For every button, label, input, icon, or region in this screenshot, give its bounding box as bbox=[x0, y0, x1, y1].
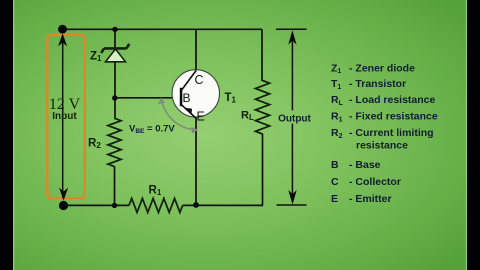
svg-text:- Collector: - Collector bbox=[349, 176, 401, 188]
wire R2 to bottom rail bbox=[114, 166, 116, 205]
node base tap junction bbox=[112, 95, 117, 100]
wire zener to R2 bbox=[114, 62, 116, 119]
svg-text:E: E bbox=[197, 110, 205, 124]
node junction bottom rail / emitter bbox=[193, 202, 199, 208]
svg-text:- Load resistance: - Load resistance bbox=[349, 94, 436, 106]
node input negative terminal bbox=[59, 201, 68, 210]
wire bottom rail right segment bbox=[183, 204, 263, 206]
input dimension arrow bbox=[58, 33, 68, 200]
svg-text:Output: Output bbox=[278, 114, 311, 125]
svg-text:resistance: resistance bbox=[356, 139, 408, 151]
svg-text:- Current limiting: - Current limiting bbox=[349, 127, 434, 139]
zener diode Z1 bbox=[101, 44, 129, 62]
svg-text:C: C bbox=[331, 176, 339, 188]
wire load branch upper bbox=[261, 29, 263, 81]
wire emitter lead bbox=[195, 117, 197, 205]
orange highlight box around input bbox=[47, 35, 85, 199]
output dimension ticks bbox=[276, 29, 307, 205]
VBE measurement arc bbox=[158, 97, 198, 133]
wire load branch lower bbox=[262, 134, 265, 206]
resistor R1 bbox=[129, 198, 183, 212]
wire top rail bbox=[61, 28, 263, 30]
wire zener branch upper bbox=[114, 29, 116, 48]
svg-text:B: B bbox=[331, 159, 339, 171]
svg-text:- Fixed resistance: - Fixed resistance bbox=[349, 111, 438, 123]
svg-text:Input: Input bbox=[52, 111, 77, 122]
node junction bottom rail / R2 branch bbox=[112, 203, 117, 208]
node junction top rail / zener branch bbox=[112, 27, 117, 32]
svg-text:- Base: - Base bbox=[349, 159, 381, 171]
svg-text:- Transistor: - Transistor bbox=[349, 78, 406, 90]
wire base lead bbox=[115, 97, 180, 99]
svg-text:- Zener diode: - Zener diode bbox=[349, 62, 415, 74]
node input positive terminal bbox=[58, 25, 67, 34]
svg-text:E: E bbox=[331, 193, 338, 205]
transistor T1 bbox=[172, 70, 219, 119]
wire collector lead bbox=[195, 29, 197, 70]
svg-text:C: C bbox=[195, 73, 204, 87]
svg-text:B: B bbox=[183, 91, 191, 105]
output dimension arrow bbox=[288, 30, 297, 204]
resistor R2 bbox=[108, 118, 121, 166]
wire bottom rail left segment bbox=[64, 204, 130, 206]
resistor RL bbox=[256, 81, 270, 134]
legend row Z1 Zener diode bbox=[331, 62, 438, 205]
svg-text:- Emitter: - Emitter bbox=[349, 193, 392, 205]
